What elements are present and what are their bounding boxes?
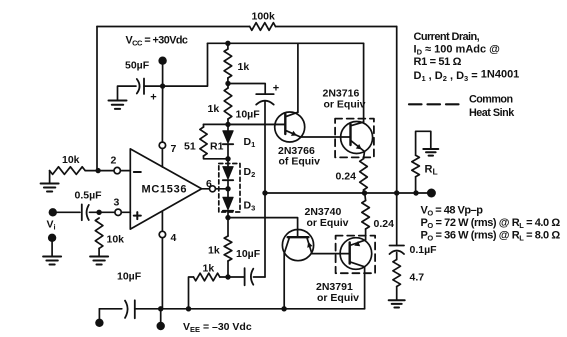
diode D2	[223, 167, 233, 181]
wire rail to 1k	[227, 43, 229, 49]
wire 10k to ground	[98, 248, 100, 256]
wire 2N3791 emitter	[365, 229, 367, 240]
wire feedback top-left segment	[97, 26, 250, 28]
svg-text:10µF: 10µF	[117, 271, 142, 283]
wire bias lower vertical	[227, 218, 229, 236]
resistor 1k second	[224, 88, 232, 119]
dashed box D2 D3 matched	[219, 164, 240, 213]
pin 6 circle	[210, 186, 216, 192]
node A junction	[225, 81, 230, 86]
node VCC junction	[160, 83, 165, 88]
transistor Q3 2N3740	[282, 230, 313, 261]
svg-text:1k: 1k	[203, 263, 215, 275]
wire node B to cap	[228, 276, 245, 278]
pin 2 circle	[114, 167, 120, 173]
ground G3	[90, 257, 108, 265]
wire feedback right vertical	[396, 27, 398, 194]
node D3 bottom junction	[225, 215, 230, 220]
wire R1 bottom	[204, 156, 229, 159]
resistor 10k (inverting input)	[50, 167, 86, 175]
svg-text:100k: 100k	[252, 11, 276, 23]
wire 2N3716 emitter	[363, 157, 365, 159]
wire node to D3	[227, 189, 229, 198]
terminal VCC	[158, 57, 166, 65]
wire D3 to node	[227, 211, 229, 218]
svg-text:ID​ ≈ 100 mAdc @: ID​ ≈ 100 mAdc @	[414, 44, 501, 57]
wire 0.24 to output rail bottom	[364, 193, 367, 201]
wire 1k to node A	[227, 78, 229, 84]
svg-text:4: 4	[171, 232, 177, 244]
svg-text:0.24: 0.24	[374, 218, 395, 230]
node VEE 2N3740 junction	[281, 306, 286, 311]
diode D1	[223, 131, 233, 144]
svg-text:R1: R1	[210, 141, 224, 153]
wire pin2 to op-amp	[120, 170, 130, 172]
wire base 2N3766	[228, 123, 285, 125]
resistor R1 51 ohm	[200, 127, 207, 156]
ground G5	[423, 149, 438, 156]
svg-text:1k: 1k	[208, 103, 220, 115]
capacitor 10uF VEE	[125, 300, 135, 318]
wire pin7 to op-amp edge	[161, 149, 163, 168]
wire VEE branch corner	[189, 277, 194, 309]
resistor RL	[412, 155, 420, 176]
node bias junction D1 top	[225, 122, 230, 127]
op-amp U1 MC1536 triangle	[130, 149, 201, 229]
svg-text:10k: 10k	[107, 234, 125, 246]
terminal Vi bottom	[48, 234, 56, 242]
wire RL bottom	[415, 177, 417, 193]
svg-text:3: 3	[114, 197, 120, 209]
wire node A to 1k	[227, 84, 229, 89]
node output feedback junction	[394, 190, 399, 195]
wire feedback left vertical	[96, 27, 98, 171]
terminal Vi top	[49, 208, 57, 216]
transistor Q4 2N3791	[340, 238, 372, 270]
node output RL junction	[413, 190, 418, 195]
terminal Vo	[427, 189, 436, 198]
wire 1k to node B horizontal	[220, 276, 228, 278]
node pin3 junction	[96, 210, 101, 215]
resistor 1k lower horizontal	[194, 273, 220, 281]
transistor Q1 2N3766	[275, 112, 305, 142]
capacitor 0.1uF	[390, 246, 405, 255]
dashed box 2N3716 heat sink	[335, 119, 374, 158]
wire VCC node to rail corner	[163, 43, 208, 86]
dashed box 2N3791 heat sink	[336, 236, 376, 274]
node bias top junction	[225, 41, 230, 46]
node VEE 1k junction	[186, 306, 191, 311]
wire 2N3740 collector	[283, 253, 285, 308]
wire bootstrap vertical	[264, 101, 266, 277]
wire bottom-left stub	[98, 309, 100, 320]
ground G2 stub	[51, 242, 53, 257]
wire output rail	[265, 192, 431, 194]
op-amp plus sign	[134, 212, 141, 219]
wire op-amp apex to pin6	[202, 188, 210, 190]
resistor RF 100k	[250, 23, 276, 31]
wire node to D2	[227, 159, 229, 167]
wire 2N3766 collector	[297, 43, 299, 112]
wire output to 0.1uF	[396, 193, 398, 246]
svg-text:4.7: 4.7	[410, 272, 425, 284]
resistor 0.24 top	[360, 159, 368, 190]
wire pin7 from VCC node	[161, 86, 163, 142]
wire D2 to node	[227, 180, 229, 189]
resistor 0.24 bottom	[362, 201, 370, 230]
op-amp minus sign	[134, 171, 141, 173]
pin 3 circle	[115, 209, 121, 215]
wire feedback top-right segment	[276, 26, 397, 28]
node B junction	[225, 274, 230, 279]
resistor 1k lower vertical	[224, 236, 232, 261]
svg-text:R1 = 51 Ω: R1 = 51 Ω	[414, 56, 462, 68]
wire VEE rail right	[135, 308, 365, 310]
wire cap to bootstrap vertical	[254, 276, 266, 278]
node bootstrap-output junction	[262, 190, 267, 195]
svg-text:2: 2	[111, 155, 117, 167]
svg-text:51: 51	[184, 141, 196, 153]
svg-text:of Equiv: of Equiv	[279, 155, 321, 167]
capacitor 10uF bottom	[245, 268, 254, 285]
diode D3	[223, 197, 233, 211]
wire 10k to pin2	[85, 170, 114, 172]
svg-text:or Equiv: or Equiv	[324, 99, 366, 111]
pin 7 circle	[159, 142, 165, 148]
svg-text:0.24: 0.24	[336, 171, 357, 183]
node pin4 VEE junction	[158, 306, 163, 311]
terminal bottom-left	[95, 319, 103, 327]
capacitor 0.5uF	[82, 204, 89, 220]
terminal VEE	[157, 322, 165, 330]
wire 4.7 to ground	[396, 287, 398, 300]
svg-text:PO​ = 72 W (rms) @ RL​ = 4.0 Ω: PO​ = 72 W (rms) @ RL​ = 4.0 Ω	[421, 217, 561, 230]
wire bias node to R1/base	[204, 123, 286, 125]
wire pin6 to diode node	[216, 188, 229, 190]
wire 2N3716 collector	[363, 43, 365, 122]
wire R1 top	[203, 124, 205, 127]
ground G1	[41, 184, 59, 192]
wire 2N3791 collector	[364, 267, 366, 309]
transistor Q2 2N3716	[341, 122, 373, 159]
svg-text:or Equiv: or Equiv	[307, 217, 349, 229]
svg-text:10µF: 10µF	[236, 248, 261, 260]
wire D3 node to 2N3740 base	[228, 218, 298, 238]
ground G4	[109, 101, 127, 109]
svg-text:1k: 1k	[238, 61, 250, 73]
svg-text:or Equiv: or Equiv	[317, 292, 359, 304]
svg-text:Heat Sink: Heat Sink	[469, 107, 515, 119]
ground G2	[43, 257, 61, 265]
wire D1 top	[227, 124, 229, 131]
wire RL top to ground	[416, 131, 431, 155]
resistor 4.7	[393, 260, 401, 287]
wire VCC node to cap	[144, 85, 163, 87]
svg-text:10µF: 10µF	[236, 109, 261, 121]
resistor 1k upper	[224, 49, 232, 78]
wire 2N3766 emitter to 2N3716 base	[301, 136, 351, 138]
svg-text:MC1536: MC1536	[142, 184, 187, 196]
wire D1 to node	[227, 144, 229, 159]
wire pin4 to VEE rail	[161, 238, 163, 309]
wire 0.1uF to 4.7	[396, 253, 398, 260]
wire node A to cap 10uF	[228, 84, 265, 95]
wire 1k to bias node	[227, 119, 229, 124]
resistor 10k (non-inverting bias)	[95, 218, 103, 248]
wire 2N3740 emitter to 2N3791 base	[312, 253, 350, 255]
svg-text:7: 7	[171, 143, 177, 155]
capacitor 50uF	[137, 79, 144, 95]
wire cap to pin3	[90, 211, 115, 213]
heat sink dashed symbol	[409, 103, 459, 105]
svg-text:Current Drain,: Current Drain,	[414, 31, 480, 43]
node output 0.24 junction	[362, 190, 367, 195]
wire VCC stub	[162, 63, 164, 86]
svg-text:Common: Common	[469, 94, 512, 106]
wire VCC rail	[208, 42, 364, 44]
svg-text:10k: 10k	[62, 154, 80, 166]
wire VEE terminal stub	[160, 309, 162, 324]
node pin6 junction	[225, 186, 230, 191]
node pin2 junction	[95, 168, 100, 173]
svg-text:50µF: 50µF	[125, 60, 150, 72]
wire VEE rail left	[99, 308, 121, 310]
node D1-D2 junction	[225, 156, 230, 161]
wire Vi to cap	[57, 211, 80, 213]
capacitor 10uF top	[256, 94, 274, 105]
wire 0.24 to output rail	[363, 190, 366, 193]
svg-text:+: +	[150, 92, 156, 104]
svg-text:6: 6	[206, 178, 212, 190]
svg-text:PO​ = 36 W (rms) @ RL​ = 8.0 Ω: PO​ = 36 W (rms) @ RL​ = 8.0 Ω	[421, 229, 561, 242]
wire 50uF left to ground corner	[118, 86, 137, 99]
ground G6	[389, 300, 405, 307]
svg-text:0.1µF: 0.1µF	[410, 244, 438, 256]
svg-text:1k: 1k	[208, 245, 220, 257]
wire 1k to node B	[227, 261, 229, 277]
svg-text:0.5µF: 0.5µF	[75, 190, 103, 202]
wire pin4 from op-amp edge	[161, 211, 163, 231]
wire pin3 to op-amp	[121, 211, 130, 213]
svg-text:+: +	[273, 83, 279, 95]
pin 4 circle	[159, 231, 165, 237]
ground G1 stub	[49, 171, 51, 183]
